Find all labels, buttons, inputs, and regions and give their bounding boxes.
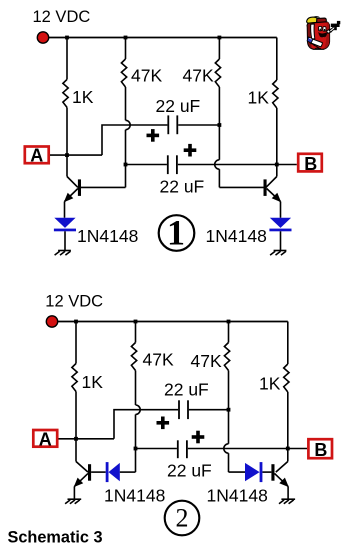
svg-text:47K: 47K (183, 65, 214, 85)
svg-text:B: B (314, 440, 327, 460)
schematic number 1 (159, 213, 195, 253)
wire C3 right to R7 node (189, 409, 229, 411)
wire emitter Q3 to ground (73, 486, 75, 499)
feet cleft (315, 48, 319, 49)
wire 1K right lead upper (276, 38, 278, 81)
ground (schematic 1 right) (270, 251, 286, 256)
svg-text:22 uF: 22 uF (156, 96, 201, 116)
wire hop over C3 wire (136, 405, 141, 414)
wire node A to collector (s2) (59, 438, 115, 440)
wire D2 to ground (280, 231, 282, 250)
capacitor C1 plate left (167, 115, 169, 134)
junction R7-C3 node (227, 408, 231, 412)
wire hop over C2 wire (215, 160, 220, 169)
wire R1 to collector node (66, 107, 68, 176)
capacitor C2 plate right (176, 155, 178, 174)
wire R4 to node B (276, 108, 278, 177)
svg-text:1N4148: 1N4148 (207, 486, 268, 506)
eye left (319, 26, 322, 30)
hammer claw (337, 21, 340, 24)
svg-text:1N4148: 1N4148 (104, 486, 165, 506)
junction R6-C4 node (134, 447, 138, 451)
wire C2 left from R2 node (126, 164, 167, 166)
wire D3 to R6 line (120, 471, 136, 473)
resistor R6 47K (131, 343, 136, 371)
resistor R5 1K (72, 364, 77, 392)
body left shade (308, 24, 312, 49)
polarity plus C3 (157, 417, 170, 430)
ground (schematic 2 left) (65, 499, 81, 504)
wire hop to base Q2 (218, 169, 220, 187)
body (307, 22, 329, 50)
saw teeth (311, 43, 322, 49)
junction rail-R1 (65, 36, 69, 40)
svg-text:22 uF: 22 uF (164, 380, 209, 400)
wire base Q4 to D4 (262, 471, 271, 473)
diode D4 1N4148 (245, 462, 262, 482)
svg-text:1: 1 (167, 213, 185, 253)
junction rail-R6 (134, 320, 138, 324)
diode D3 1N4148 (106, 462, 120, 482)
hair (307, 17, 318, 23)
diode D1 1N4148 (54, 218, 76, 232)
svg-text:1K: 1K (248, 87, 270, 107)
resistor R2 47K (121, 59, 126, 87)
node A box (s2) (33, 429, 57, 449)
svg-text:1N4148: 1N4148 (206, 226, 267, 246)
wire R2 down to hop (125, 87, 127, 120)
wire emitter Q2 to D2 (280, 202, 282, 218)
node A box (25, 146, 49, 166)
junction A-collector (s2) (74, 437, 78, 441)
hammer head (331, 24, 340, 27)
arm white (311, 24, 315, 39)
wire C1 right to R3 node (178, 124, 219, 126)
node B box (298, 154, 322, 174)
hammer neck (334, 27, 337, 30)
wire R7 down to C3 node (228, 371, 230, 444)
node B box (s2) (308, 439, 332, 460)
wire D1 to ground (64, 231, 66, 250)
tongue (320, 37, 324, 38)
junction rail-R5 (74, 320, 78, 324)
wire base Q1 (81, 186, 126, 188)
svg-text:1N4148: 1N4148 (77, 226, 138, 246)
svg-text:B: B (304, 154, 317, 174)
resistor R7 47K (224, 343, 229, 371)
capacitor C3 plate right (187, 400, 189, 419)
top cap (317, 18, 327, 24)
hair strand (314, 16, 320, 19)
supply dot (bottom) (46, 316, 57, 327)
svg-text:47K: 47K (143, 350, 174, 370)
diode D2 1N4148 (269, 218, 291, 232)
wire hop to base node (s2 left) (135, 414, 137, 472)
saw blade (310, 39, 322, 47)
transistor Q3 (74, 462, 91, 488)
wire 1K right lead upper (s2) (287, 322, 289, 365)
wire bottom rail (52, 321, 288, 323)
junction R3-C1 node (218, 123, 222, 127)
svg-text:1K: 1K (72, 87, 94, 107)
wire 47K right lead upper (s2) (228, 322, 230, 343)
transistor Q2 (264, 177, 282, 203)
capacitor C1 plate right (176, 115, 178, 134)
wire D4 to R7 line (229, 471, 246, 473)
svg-text:1K: 1K (259, 374, 281, 394)
svg-text:12 VDC: 12 VDC (33, 8, 91, 26)
wire jog up to C1 (102, 125, 167, 155)
wire C4 right to node B (s2) (188, 448, 307, 450)
svg-text:12 VDC: 12 VDC (45, 292, 103, 310)
eye right (323, 27, 326, 31)
wire base Q3 to D3 (91, 471, 106, 473)
svg-text:1K: 1K (82, 372, 104, 392)
svg-text:47K: 47K (191, 351, 222, 371)
wire jog up to C3 (114, 410, 178, 439)
mouth (318, 32, 327, 38)
wire R5 to collector (s2) (75, 392, 77, 462)
resistor R1 1K (63, 79, 68, 107)
junction R4-B node (275, 163, 279, 167)
resistor R8 1K (284, 364, 289, 392)
capacitor C3 plate left (178, 400, 180, 419)
transistor Q1 (64, 177, 81, 203)
junction rail-R2 (124, 36, 128, 40)
wire base Q2 (219, 186, 263, 188)
polarity plus C1 (147, 129, 160, 142)
wire C4 left from R6 node (136, 448, 177, 450)
svg-text:22 uF: 22 uF (167, 461, 212, 481)
wire C2 right to node B (178, 164, 297, 166)
junction R2-C2 node (124, 163, 128, 167)
wire hop over C1 wire (126, 120, 131, 129)
wire 1K left lead upper (s2) (75, 322, 77, 364)
capacitor C4 plate right (186, 440, 188, 458)
wire R8 to node B (s2) (287, 392, 289, 462)
junction rail-R7 (227, 320, 231, 324)
polarity plus C2 (184, 144, 197, 157)
wire emitter Q1 to D1 (64, 202, 66, 218)
junction A-collector (65, 153, 69, 157)
svg-text:A: A (30, 146, 43, 166)
junction rail-R3 (218, 36, 222, 40)
transistor Q4 (271, 462, 288, 488)
ground (schematic 2 right) (279, 499, 295, 504)
wire hop to base Q4 (228, 453, 230, 472)
wire R6 down to hop (s2) (135, 371, 137, 406)
wire hop over C4 wire (s2 right) (224, 444, 229, 453)
logo mascot (top right) (307, 17, 341, 50)
resistor R4 1K (273, 80, 278, 108)
wire top rail (43, 37, 277, 39)
capacitor C4 plate left (177, 440, 179, 458)
wire 47K left lead upper (125, 38, 127, 60)
resistor R3 47K (215, 59, 220, 87)
body right shade (324, 22, 329, 49)
svg-text:A: A (39, 429, 52, 449)
svg-text:Schematic 3: Schematic 3 (8, 529, 103, 547)
wire R3 down to C1 node (218, 87, 220, 160)
wire 47K right lead upper (218, 38, 220, 60)
junction R8-B node (286, 447, 290, 451)
saw handle shine (309, 38, 311, 39)
supply dot (top) (37, 32, 48, 43)
svg-text:22 uF: 22 uF (160, 177, 205, 197)
hand (327, 29, 332, 33)
wire 1K left lead upper (66, 38, 68, 80)
polarity plus C4 (192, 431, 205, 444)
wire emitter Q4 to ground (287, 486, 289, 499)
hammer handle (329, 26, 336, 32)
ground (schematic 1 left) (55, 251, 71, 256)
capacitor C2 plate left (167, 155, 169, 174)
svg-text:47K: 47K (131, 65, 162, 85)
wire node A to collector Q1 (50, 154, 102, 156)
pupils (320, 29, 321, 31)
svg-text:2: 2 (176, 504, 189, 533)
wire 47K left lead upper (s2) (135, 322, 137, 343)
schematic number 2 (165, 501, 200, 536)
wire hop to base node (125, 130, 127, 188)
saw handle (307, 37, 313, 43)
